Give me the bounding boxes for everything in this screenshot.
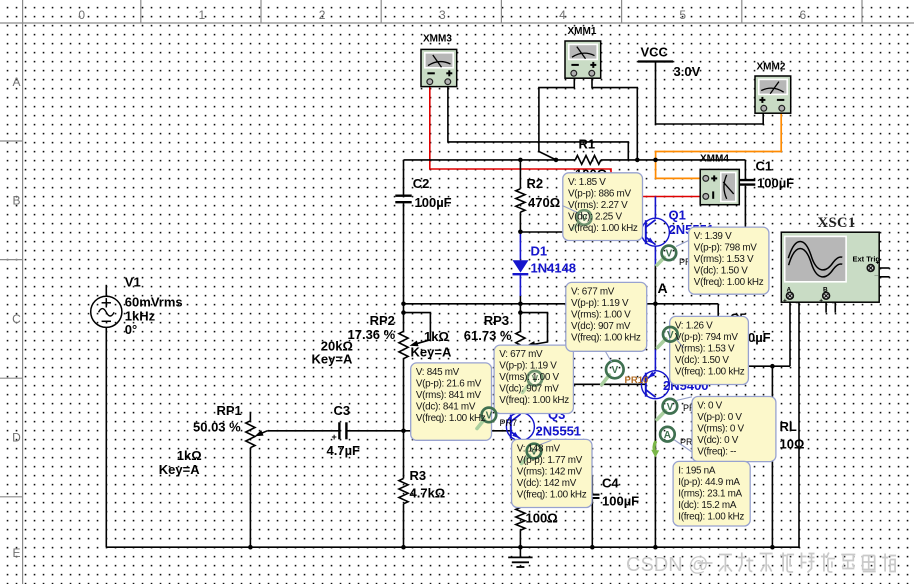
svg-text:V(freq): 1.00 kHz: V(freq): 1.00 kHz xyxy=(694,277,764,288)
svg-text:6: 6 xyxy=(800,8,807,22)
svg-text:PR7: PR7 xyxy=(500,418,518,428)
svg-text:100µF: 100µF xyxy=(602,494,639,509)
svg-text:V(freq): 1.00 kHz: V(freq): 1.00 kHz xyxy=(416,413,486,424)
svg-text:PR10: PR10 xyxy=(625,375,649,386)
svg-text:I(p-p): 44.9 mA: I(p-p): 44.9 mA xyxy=(678,477,740,488)
svg-text:3: 3 xyxy=(439,8,446,22)
svg-text:V(freq): 1.00 kHz: V(freq): 1.00 kHz xyxy=(568,223,638,234)
svg-text:V(rms): 1.00 V: V(rms): 1.00 V xyxy=(499,372,559,383)
svg-text:XMM3: XMM3 xyxy=(423,34,452,45)
svg-text:100µF: 100µF xyxy=(757,176,794,191)
svg-text:V(dc): 907 mV: V(dc): 907 mV xyxy=(499,384,559,395)
svg-text:V: V xyxy=(611,365,618,376)
svg-text:470Ω: 470Ω xyxy=(528,195,560,210)
svg-text:V(p-p): 1.19 V: V(p-p): 1.19 V xyxy=(499,361,557,372)
svg-text:V: 1.85 V: V: 1.85 V xyxy=(568,177,606,188)
svg-text:RL: RL xyxy=(780,419,797,434)
svg-text:V(dc): 0 V: V(dc): 0 V xyxy=(697,435,739,446)
svg-text:4.7kΩ: 4.7kΩ xyxy=(410,486,446,501)
svg-text:V(freq): --: V(freq): -- xyxy=(697,447,736,458)
svg-text:5: 5 xyxy=(679,8,686,22)
svg-text:R3: R3 xyxy=(410,468,427,483)
svg-text:61.73 %: 61.73 % xyxy=(464,328,512,343)
svg-text:Key=A: Key=A xyxy=(411,345,452,360)
svg-text:B: B xyxy=(12,193,20,207)
svg-text:+: + xyxy=(876,260,880,267)
svg-text:V(p-p): 798 mV: V(p-p): 798 mV xyxy=(694,243,757,254)
svg-text:4: 4 xyxy=(559,8,566,22)
svg-text:V: V xyxy=(667,330,674,341)
svg-text:A: A xyxy=(658,280,668,296)
svg-text:V(rms): 142 mV: V(rms): 142 mV xyxy=(517,466,583,477)
svg-text:0: 0 xyxy=(78,8,85,22)
svg-text:V(rms): 841 mV: V(rms): 841 mV xyxy=(416,390,482,401)
svg-text:I(dc): 15.2 mA: I(dc): 15.2 mA xyxy=(678,500,737,511)
svg-text:RP1: RP1 xyxy=(217,403,242,418)
svg-text:V(p-p): 1.77 mV: V(p-p): 1.77 mV xyxy=(517,455,583,466)
svg-text:V(dc): 907 mV: V(dc): 907 mV xyxy=(571,321,631,332)
svg-text:100µF: 100µF xyxy=(415,195,452,210)
svg-text:V: 677 mV: V: 677 mV xyxy=(499,349,543,360)
svg-text:Key=A: Key=A xyxy=(159,462,200,477)
svg-text:V(p-p): 1.19 V: V(p-p): 1.19 V xyxy=(571,298,629,309)
svg-text:+: + xyxy=(819,298,823,305)
svg-text:I(freq): 1.00 kHz: I(freq): 1.00 kHz xyxy=(678,511,744,522)
svg-text:RP3: RP3 xyxy=(484,313,509,328)
svg-text:2: 2 xyxy=(319,8,326,22)
svg-text:V(p-p): 0 V: V(p-p): 0 V xyxy=(697,412,742,423)
svg-text:I: 195 nA: I: 195 nA xyxy=(678,465,716,476)
svg-text:17.36 %: 17.36 % xyxy=(348,327,396,342)
svg-text:V1: V1 xyxy=(125,275,141,290)
svg-text:_: _ xyxy=(874,270,879,277)
svg-text:_: _ xyxy=(831,298,836,305)
svg-text:V(p-p): 794 mV: V(p-p): 794 mV xyxy=(675,332,738,343)
svg-text:C3: C3 xyxy=(334,403,351,418)
svg-text:1N4148: 1N4148 xyxy=(531,261,577,276)
svg-text:10Ω: 10Ω xyxy=(780,437,805,452)
svg-text:V(dc): 841 mV: V(dc): 841 mV xyxy=(416,401,476,412)
svg-text:V: 148 mV: V: 148 mV xyxy=(517,443,561,454)
svg-text:B: B xyxy=(823,287,828,294)
svg-text:RP2: RP2 xyxy=(370,313,395,328)
svg-text:V: 0 V: V: 0 V xyxy=(697,401,722,412)
svg-text:_: _ xyxy=(795,298,800,305)
svg-text:Key=A: Key=A xyxy=(312,352,353,367)
svg-text:V(dc): 1.50 V: V(dc): 1.50 V xyxy=(675,355,729,366)
svg-text:V: 1.26 V: V: 1.26 V xyxy=(675,320,713,331)
svg-text:V(freq): 1.00 kHz: V(freq): 1.00 kHz xyxy=(675,366,745,377)
svg-text:V(rms): 0 V: V(rms): 0 V xyxy=(697,424,744,435)
svg-text:V(freq): 1.00 kHz: V(freq): 1.00 kHz xyxy=(571,332,641,343)
svg-text:1kΩ: 1kΩ xyxy=(177,448,202,463)
svg-text:V(dc): 2.25 V: V(dc): 2.25 V xyxy=(568,211,622,222)
svg-text:XMM4: XMM4 xyxy=(700,154,729,165)
svg-text:A: A xyxy=(12,75,20,89)
svg-text:Q1: Q1 xyxy=(669,208,686,223)
svg-text:V: 677 mV: V: 677 mV xyxy=(571,286,615,297)
svg-text:A: A xyxy=(664,430,671,441)
svg-text:V(dc): 142 mV: V(dc): 142 mV xyxy=(517,478,577,489)
svg-text:C1: C1 xyxy=(756,159,773,174)
svg-text:C4: C4 xyxy=(602,476,619,491)
svg-text:0°: 0° xyxy=(125,322,137,337)
svg-text:V(p-p): 886 mV: V(p-p): 886 mV xyxy=(568,188,631,199)
svg-text:50.03 %: 50.03 % xyxy=(193,420,241,435)
svg-text:V(dc): 1.50 V: V(dc): 1.50 V xyxy=(694,266,748,277)
svg-text:3.0V: 3.0V xyxy=(674,64,701,79)
svg-text:V: 1.39 V: V: 1.39 V xyxy=(694,231,732,242)
svg-text:V(freq): 1.00 kHz: V(freq): 1.00 kHz xyxy=(499,395,569,406)
svg-text:XMM1: XMM1 xyxy=(568,26,597,37)
svg-text:V: V xyxy=(666,249,673,260)
svg-text:1kΩ: 1kΩ xyxy=(424,329,449,344)
svg-text:CSDN @: CSDN @ xyxy=(626,554,709,576)
svg-text:V: 845 mV: V: 845 mV xyxy=(416,367,460,378)
svg-text:2N5551: 2N5551 xyxy=(536,424,582,439)
svg-text:60mVrms: 60mVrms xyxy=(125,295,183,310)
svg-text:D1: D1 xyxy=(531,244,548,259)
svg-text:+: + xyxy=(783,298,787,305)
svg-text:V: V xyxy=(667,402,674,413)
svg-text:XMM2: XMM2 xyxy=(757,62,786,73)
svg-text:C2: C2 xyxy=(413,176,430,191)
svg-text:I(rms): 23.1 mA: I(rms): 23.1 mA xyxy=(678,488,742,499)
svg-text:E: E xyxy=(12,546,20,560)
svg-text:V(rms): 1.00 V: V(rms): 1.00 V xyxy=(571,309,631,320)
svg-text:VCC: VCC xyxy=(641,45,669,60)
svg-text:C: C xyxy=(12,312,21,326)
svg-text:V(rms): 2.27 V: V(rms): 2.27 V xyxy=(568,200,628,211)
svg-text:100Ω: 100Ω xyxy=(526,511,558,526)
svg-text:XSC1: XSC1 xyxy=(818,215,856,231)
svg-text:R1: R1 xyxy=(579,137,596,152)
svg-text:1: 1 xyxy=(199,8,206,22)
svg-text:V(rms): 1.53 V: V(rms): 1.53 V xyxy=(675,343,735,354)
svg-text:V(freq): 1.00 kHz: V(freq): 1.00 kHz xyxy=(517,489,587,500)
svg-text:D: D xyxy=(12,431,21,445)
svg-text:+: + xyxy=(332,432,337,442)
svg-text:4.7µF: 4.7µF xyxy=(327,443,361,458)
svg-text:R2: R2 xyxy=(527,176,544,191)
svg-text:V(rms): 1.53 V: V(rms): 1.53 V xyxy=(694,254,754,265)
svg-text:A: A xyxy=(787,287,792,294)
svg-text:V(p-p): 21.6 mV: V(p-p): 21.6 mV xyxy=(416,378,482,389)
svg-text:V: V xyxy=(486,411,493,422)
